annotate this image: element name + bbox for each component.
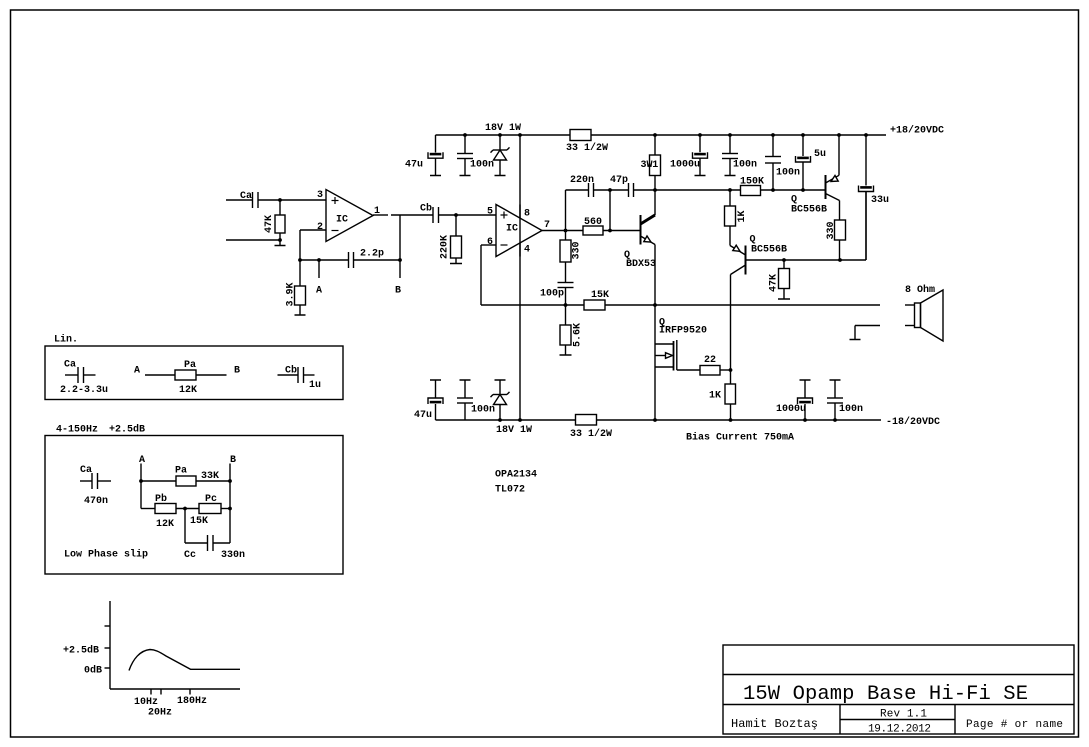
svg-text:100n: 100n (733, 160, 757, 171)
svg-text:Cc: Cc (184, 550, 196, 561)
svg-text:220K: 220K (440, 235, 451, 259)
capacitor 33u (865, 135, 867, 186)
svg-text:A: A (316, 286, 322, 297)
wire BC556B lower collector (730, 275, 732, 371)
capacitor 2.2p feedback (348, 252, 350, 268)
svg-text:10Hz: 10Hz (134, 697, 158, 708)
svg-text:8 Ohm: 8 Ohm (905, 284, 935, 296)
wire BC556B upper emitter to rail (838, 135, 840, 175)
capacitor 100n bottom right (830, 379, 841, 381)
resistor 3.9K feedback ground (299, 260, 301, 286)
resistor 47K base network (783, 260, 785, 269)
svg-text:47K: 47K (769, 274, 780, 292)
resistor 3W 1 collector feed (654, 135, 656, 155)
svg-text:5: 5 (487, 207, 493, 218)
capacitor 100n top second (729, 135, 731, 154)
wire gate lead (676, 369, 678, 372)
graph x ticks (150, 689, 152, 695)
capacitor 47p (628, 183, 630, 197)
wire op-amp2 output pin7 (542, 230, 583, 232)
ground input (279, 240, 281, 246)
svg-text:2: 2 (317, 222, 323, 233)
svg-text:100p: 100p (540, 289, 564, 300)
svg-text:B: B (234, 366, 240, 377)
svg-text:12K: 12K (156, 519, 174, 530)
capacitor 100n top third (772, 135, 774, 157)
svg-text:47u: 47u (414, 410, 432, 421)
ground 47K (783, 289, 785, 300)
svg-text:100n: 100n (776, 168, 800, 179)
svg-text:220n: 220n (570, 175, 594, 186)
svg-text:15K: 15K (190, 516, 208, 527)
capacitor 47u top (435, 135, 437, 153)
svg-text:18V 1W: 18V 1W (496, 425, 532, 436)
capacitor 47u bottom (430, 379, 441, 381)
svg-text:Ca: Ca (64, 360, 76, 371)
svg-text:1u: 1u (309, 380, 321, 391)
svg-text:180Hz: 180Hz (177, 696, 207, 707)
svg-text:33u: 33u (871, 195, 889, 206)
wire source vertical to bottom rail (654, 305, 656, 420)
svg-text:47u: 47u (405, 160, 423, 171)
svg-text:BC556B: BC556B (791, 205, 827, 216)
svg-text:1000u: 1000u (670, 160, 700, 171)
svg-text:Pc: Pc (205, 494, 217, 505)
graph y-axis (109, 601, 111, 689)
svg-text:7: 7 (544, 220, 550, 231)
resistor 330 BC556B collector (839, 201, 841, 221)
transistor Q BC556B upper (825, 175, 827, 199)
wire Ca to op-amp pin 3 (259, 199, 327, 201)
resistor Pc 15K (199, 504, 221, 514)
svg-text:B: B (395, 286, 401, 297)
capacitor Ca input (252, 192, 254, 208)
svg-text:33 1/2W: 33 1/2W (566, 142, 608, 154)
svg-text:150K: 150K (740, 177, 764, 188)
capacitor 5u (802, 135, 804, 156)
wire speaker return (855, 325, 880, 327)
wire BDX53 collector (654, 190, 656, 215)
svg-text:8: 8 (524, 209, 530, 220)
wire -18V bottom rail (436, 419, 576, 421)
resistor 560 base drive (583, 226, 603, 235)
svg-text:+18/20VDC: +18/20VDC (890, 125, 944, 137)
zener diode 18V 1W top (499, 135, 501, 150)
wire 220n 47p branch vertical left (565, 190, 567, 231)
wire feedback node line (300, 259, 348, 261)
svg-text:Ca: Ca (80, 465, 92, 476)
capacitor 100n top filter (464, 135, 466, 154)
title block frame (723, 645, 1074, 734)
svg-text:1K: 1K (709, 391, 721, 402)
svg-text:IRFP9520: IRFP9520 (659, 326, 707, 337)
svg-text:33 1/2W: 33 1/2W (570, 428, 612, 440)
svg-text:Cb: Cb (420, 203, 432, 215)
svg-text:1000u: 1000u (776, 404, 806, 415)
svg-text:1: 1 (652, 160, 658, 171)
svg-text:33K: 33K (201, 471, 219, 482)
svg-text:5u: 5u (814, 149, 826, 160)
graph response curve (129, 650, 240, 671)
op-amp U1A IC (326, 190, 373, 242)
svg-text:15W Opamp Base Hi-Fi SE: 15W Opamp Base Hi-Fi SE (743, 683, 1028, 706)
svg-text:12K: 12K (179, 385, 197, 396)
ground speaker (854, 326, 856, 340)
svg-text:2.2-3.3u: 2.2-3.3u (60, 385, 108, 396)
svg-text:18V 1W: 18V 1W (485, 123, 521, 134)
capacitor 220n (588, 183, 590, 197)
graph x-axis (110, 688, 240, 690)
graph y ticks (105, 625, 111, 627)
wire 220n 47p top line (566, 189, 589, 191)
svg-text:100n: 100n (470, 160, 494, 171)
svg-text:B: B (230, 455, 236, 466)
svg-text:Pa: Pa (184, 360, 196, 371)
wire BC556B lower base line (746, 259, 867, 261)
svg-text:5.6K: 5.6K (573, 323, 584, 347)
svg-text:47p: 47p (610, 175, 628, 186)
wire 47p junction vertical (609, 190, 611, 231)
svg-text:0dB: 0dB (84, 665, 102, 677)
resistor 150K (741, 186, 761, 196)
resistor 1K bias (729, 190, 731, 206)
wire op-amp1 output (373, 214, 388, 216)
svg-text:Hamit Boztaş: Hamit Boztaş (731, 717, 818, 731)
capacitor Cc 330n (184, 509, 186, 544)
wire Cb to pin5 (439, 214, 496, 216)
svg-text:BC556B: BC556B (751, 245, 787, 256)
svg-text:Pa: Pa (175, 466, 187, 477)
wire pin2 inverting input (300, 229, 326, 231)
svg-text:100n: 100n (839, 404, 863, 415)
wire BDX53 emitter to bus (654, 245, 656, 306)
capacitor 1000u bottom (800, 379, 811, 381)
wire op-amp supply pin8 to pin4 vertical (519, 135, 521, 420)
svg-text:-18/20VDC: -18/20VDC (886, 416, 940, 428)
svg-text:IC: IC (506, 224, 518, 235)
svg-text:20Hz: 20Hz (148, 708, 172, 719)
svg-text:+2.5dB: +2.5dB (63, 645, 99, 657)
resistor 1K gate to rail (730, 370, 732, 384)
op-amp U1B IC (496, 205, 542, 257)
svg-text:A: A (139, 455, 145, 466)
resistor 33 1/2W bottom rail (576, 415, 597, 426)
node A stub (318, 260, 320, 278)
svg-text:15K: 15K (591, 290, 609, 301)
svg-text:IC: IC (336, 215, 348, 226)
ground 3.9K (299, 305, 301, 315)
svg-text:+2.5dB: +2.5dB (109, 424, 145, 436)
svg-text:Page # or name: Page # or name (966, 719, 1063, 731)
wire 150K line (655, 189, 741, 191)
svg-text:TL072: TL072 (495, 485, 525, 496)
capacitor 1000u top (699, 135, 701, 152)
svg-text:3.9K: 3.9K (286, 282, 297, 306)
node B stub (399, 215, 401, 278)
resistor 47K input bias (279, 200, 281, 215)
resistor 5.6K to ground (565, 305, 567, 325)
svg-text:470n: 470n (84, 496, 108, 507)
svg-text:330n: 330n (221, 550, 245, 561)
wire +18V top rail (436, 134, 571, 136)
capacitor 100n bottom (460, 379, 471, 381)
wire pin6 feedback (481, 244, 496, 246)
wire output bus to speaker (481, 304, 880, 306)
capacitor Cb coupling (432, 207, 434, 223)
svg-text:A: A (134, 366, 140, 377)
svg-text:OPA2134: OPA2134 (495, 470, 537, 481)
transistor Q BDX53 (640, 215, 642, 245)
svg-text:4-150Hz: 4-150Hz (56, 425, 98, 436)
svg-text:Lin.: Lin. (54, 334, 78, 346)
svg-text:19.12.2012: 19.12.2012 (868, 724, 931, 736)
svg-text:2.2p: 2.2p (360, 249, 384, 260)
resistor 33 1/2W top rail (570, 130, 591, 141)
resistor 220K bias op-amp2 (455, 215, 457, 236)
svg-text:Low Phase slip: Low Phase slip (64, 549, 148, 561)
svg-text:1K: 1K (737, 210, 748, 222)
svg-text:330: 330 (572, 241, 583, 259)
ground 220K (455, 258, 457, 264)
mosfet Q IRFP9520 (655, 343, 674, 345)
resistor Pb 12K (140, 481, 142, 509)
svg-text:Pb: Pb (155, 493, 167, 505)
transistor Q BC556B lower (745, 246, 747, 275)
svg-text:6: 6 (487, 237, 493, 248)
resistor 15K feedback (584, 300, 605, 310)
zener diode 18V 1W bottom (495, 379, 506, 381)
resistor 22 gate (700, 366, 720, 376)
svg-text:Bias Current 750mA: Bias Current 750mA (686, 432, 794, 444)
svg-text:Ca: Ca (240, 191, 252, 202)
svg-text:3: 3 (317, 190, 323, 201)
svg-text:Rev 1.1: Rev 1.1 (880, 709, 927, 721)
svg-text:330: 330 (826, 221, 837, 239)
svg-text:560: 560 (584, 217, 602, 228)
wire signal input (226, 199, 252, 201)
svg-text:47K: 47K (264, 215, 275, 233)
svg-text:BDX53: BDX53 (626, 259, 656, 270)
ground 5.6K (565, 345, 567, 355)
resistor 330 output network (565, 231, 567, 241)
wire input return (226, 239, 280, 241)
svg-text:4: 4 (524, 245, 530, 256)
svg-text:100n: 100n (471, 405, 495, 416)
svg-text:3W: 3W (641, 160, 653, 171)
svg-text:22: 22 (704, 355, 716, 366)
resistor Pa 33K (141, 480, 176, 482)
capacitor 100p (558, 282, 574, 284)
